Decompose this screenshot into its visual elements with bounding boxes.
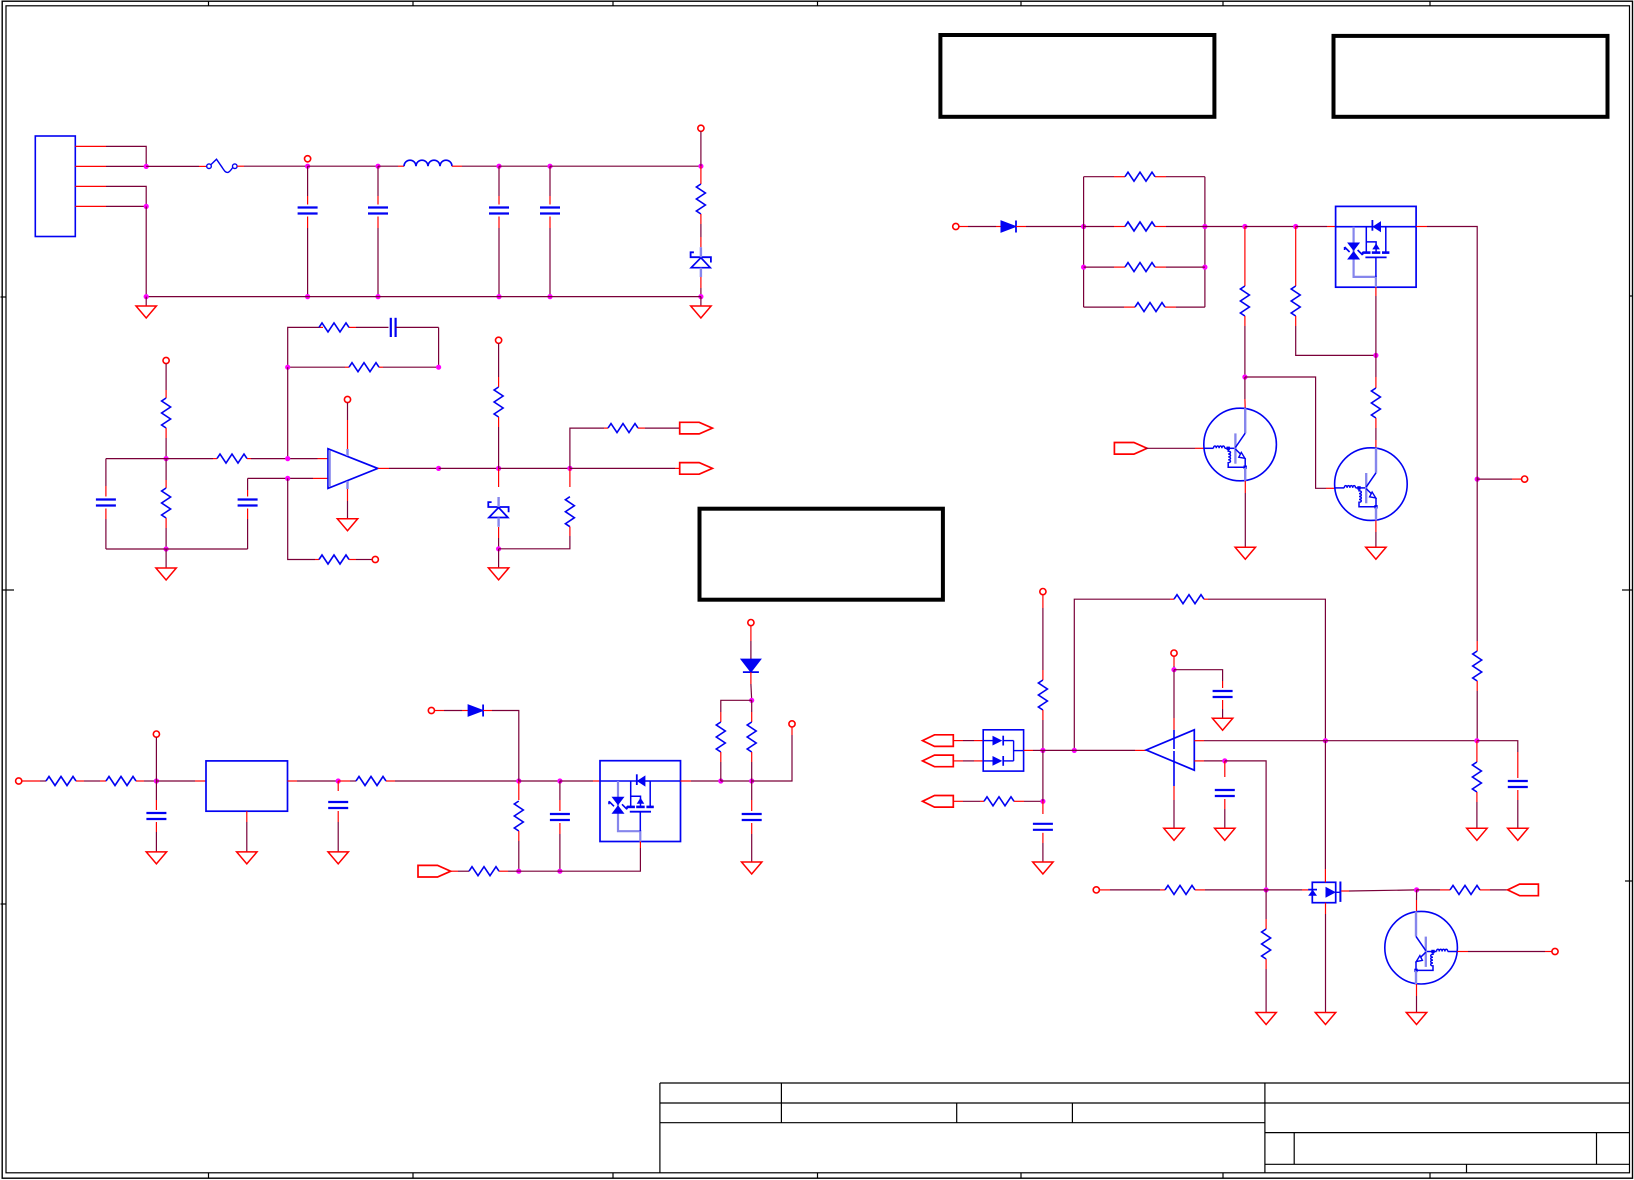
network wire row1 bbox=[1084, 176, 1205, 178]
wire R11 to R12 bbox=[76, 780, 106, 782]
U3 power pin bbox=[1173, 730, 1175, 749]
wire to ground bus bbox=[145, 206, 147, 296]
label box 3 bbox=[700, 509, 943, 600]
ground bbox=[1212, 718, 1232, 730]
resistor R26 bbox=[1371, 355, 1380, 448]
junction bbox=[749, 698, 754, 703]
junction bbox=[164, 456, 169, 461]
wire port to rail bbox=[700, 131, 702, 166]
fuse F1 bbox=[207, 159, 237, 172]
junction bbox=[285, 365, 290, 370]
wire to out port bbox=[752, 727, 792, 781]
capacitor C5 bbox=[391, 318, 396, 337]
junction bbox=[1323, 738, 1328, 743]
resistor R13 bbox=[356, 777, 386, 786]
wire power down bbox=[1173, 670, 1175, 730]
capacitor C7 bbox=[238, 478, 258, 549]
wire port to node bbox=[155, 737, 157, 781]
ground bbox=[1164, 828, 1184, 840]
junction bbox=[496, 466, 501, 471]
junction bbox=[749, 778, 754, 783]
transistor Q3 bbox=[1204, 408, 1277, 481]
wire R7 to port bbox=[349, 559, 372, 561]
ground bbox=[691, 297, 711, 318]
pin 4 stub bbox=[75, 205, 106, 207]
wire R30 to node bbox=[1014, 800, 1043, 802]
wire node to mosfet gate bbox=[1266, 889, 1312, 891]
pin 1 stub bbox=[75, 145, 106, 147]
junction bbox=[1264, 887, 1269, 892]
port bbox=[16, 778, 22, 784]
wire node link bbox=[1042, 750, 1044, 801]
resistor R10 bbox=[608, 424, 638, 433]
junction bbox=[1474, 738, 1479, 743]
resistor R15 bbox=[716, 712, 725, 781]
resistor R29 bbox=[1472, 741, 1481, 829]
wire to C12 bbox=[1174, 670, 1223, 681]
wire feedback mid bbox=[288, 366, 349, 368]
wire to mosfet box bbox=[1296, 226, 1336, 228]
diode D3 bbox=[468, 705, 483, 717]
wire regulator out bbox=[288, 780, 339, 782]
mosfet gate stub bbox=[1336, 891, 1340, 893]
junction bbox=[547, 164, 552, 169]
resistor R19 bbox=[1125, 222, 1155, 231]
ground bbox=[742, 862, 762, 874]
junction bbox=[436, 466, 441, 471]
diode D4 bbox=[741, 626, 761, 672]
port bbox=[428, 707, 434, 713]
wire input row bbox=[106, 458, 217, 460]
wire port1 bbox=[953, 740, 983, 742]
port bbox=[1040, 589, 1046, 595]
resistor R14 bbox=[514, 781, 523, 871]
mosfet Q5 bbox=[1308, 882, 1340, 903]
junction bbox=[285, 456, 290, 461]
resistor R21 bbox=[1135, 303, 1165, 312]
resistor R2 bbox=[319, 323, 349, 332]
port bbox=[1552, 948, 1558, 954]
wire R13 to node bbox=[386, 780, 519, 782]
capacitor C15 bbox=[1033, 801, 1053, 862]
resistor R25 bbox=[1291, 227, 1376, 356]
op-amp U3 bbox=[1146, 730, 1194, 770]
wire pin4 bbox=[106, 205, 146, 207]
junction bbox=[154, 778, 159, 783]
resistor R11 bbox=[46, 777, 76, 786]
port bbox=[680, 422, 713, 434]
junction bbox=[1475, 477, 1480, 482]
wire node to opamp out bbox=[1043, 749, 1146, 751]
wire to offset port bbox=[288, 478, 319, 559]
wire to Q4 base bbox=[1245, 377, 1335, 488]
wire node to mosfet box bbox=[560, 780, 600, 782]
inductor right stub bbox=[452, 165, 462, 167]
resistor R27 bbox=[1038, 680, 1047, 710]
resistor R6 bbox=[162, 459, 171, 549]
junction bbox=[698, 164, 703, 169]
ground bbox=[1215, 828, 1235, 840]
label box 2 bbox=[1334, 36, 1608, 117]
wire out row to port bbox=[570, 467, 680, 469]
pin 2 stub bbox=[75, 165, 106, 167]
wire D3 to node bbox=[483, 711, 519, 782]
resistor R28 bbox=[1174, 595, 1204, 604]
junction bbox=[516, 778, 521, 783]
wire fuse to node bbox=[244, 165, 308, 167]
wire port to D5 bbox=[959, 226, 1001, 228]
wire R17 to node bbox=[499, 870, 519, 872]
wire R4 to node bbox=[165, 428, 167, 459]
ground bbox=[488, 549, 508, 580]
resistor network right rail bbox=[1204, 177, 1206, 307]
Q3 emitter wire bbox=[1244, 481, 1246, 547]
junction bbox=[1373, 353, 1378, 358]
wire pin3 bbox=[106, 186, 146, 206]
junction bbox=[1202, 224, 1207, 229]
junction bbox=[496, 164, 501, 169]
port bbox=[748, 620, 754, 626]
resistor R3 bbox=[349, 363, 379, 372]
junction bbox=[1081, 265, 1086, 270]
capacitor bbox=[298, 166, 318, 296]
port bbox=[1114, 443, 1147, 455]
feedback wire top bbox=[1074, 599, 1174, 750]
wire feedback right bbox=[1204, 599, 1325, 741]
junction bbox=[164, 546, 169, 551]
op-amp power pin bbox=[344, 396, 350, 456]
port bbox=[953, 223, 959, 229]
junction bbox=[285, 476, 290, 481]
resistor R1 bbox=[696, 166, 705, 247]
wire IN+ row right bbox=[1325, 740, 1477, 742]
capacitor C8 bbox=[146, 781, 166, 852]
wire feedback top bbox=[288, 327, 323, 367]
wire noninverting row bbox=[248, 477, 328, 479]
regulator gnd pin bbox=[237, 811, 257, 864]
ground bbox=[1467, 828, 1487, 840]
network wire row4 bbox=[1084, 306, 1205, 308]
wire port to R4 bbox=[165, 364, 167, 398]
port bbox=[1508, 884, 1539, 896]
wire mosfet drain bbox=[1324, 741, 1326, 883]
capacitor C11 bbox=[742, 781, 762, 862]
junction bbox=[144, 294, 149, 299]
junction bbox=[557, 778, 562, 783]
wire rail to right stack bbox=[550, 165, 701, 167]
port bbox=[305, 156, 311, 162]
diode D5 bbox=[1001, 221, 1016, 233]
wire port to R27 bbox=[1042, 595, 1044, 680]
wire port2 bbox=[953, 760, 983, 762]
port bbox=[496, 337, 502, 343]
title block table bbox=[660, 1083, 1630, 1173]
wire R24 to Q3 bbox=[1244, 377, 1246, 408]
junction bbox=[375, 164, 380, 169]
wire to next node bbox=[721, 780, 752, 782]
junction bbox=[516, 869, 521, 874]
wire network to mosfet bbox=[1205, 226, 1245, 228]
Q4 emitter wire bbox=[1375, 520, 1377, 547]
connector J1 bbox=[35, 136, 75, 237]
capacitor C13 bbox=[1508, 752, 1528, 828]
op-amp U1 bbox=[328, 449, 378, 489]
frame zone ticks left and right bbox=[1, 296, 1634, 904]
wire mosfet source bbox=[1325, 903, 1327, 1013]
wire D4 to node bbox=[750, 672, 753, 700]
resistor R18 bbox=[1125, 172, 1155, 181]
wire to inductor bbox=[378, 165, 404, 167]
wire port to R8 bbox=[498, 343, 500, 387]
resistor network left rail bbox=[1083, 177, 1085, 307]
ground bbox=[328, 852, 348, 864]
junction bbox=[436, 365, 441, 370]
resistor R31 bbox=[1165, 885, 1195, 894]
wire R8 to out bbox=[498, 417, 500, 468]
junction bbox=[1293, 224, 1298, 229]
zener bottom stub bbox=[700, 277, 702, 297]
U3 gnd pin bbox=[1173, 751, 1175, 828]
junction bbox=[144, 164, 149, 169]
junction bbox=[567, 466, 572, 471]
junction bbox=[305, 164, 310, 169]
resistor R24 bbox=[1240, 227, 1249, 378]
wire C5 to corner bbox=[396, 327, 439, 367]
junction bbox=[547, 294, 552, 299]
ground bbox=[1235, 547, 1255, 559]
wire to R22 node bbox=[1245, 226, 1296, 228]
junction bbox=[496, 546, 501, 551]
mosfet Q1 bbox=[600, 761, 681, 842]
resistor R17 bbox=[469, 867, 499, 876]
frame zone ticks top and bottom bbox=[209, 1, 1431, 1178]
wire mosfet out bbox=[681, 780, 721, 782]
ground bbox=[146, 852, 166, 864]
junction bbox=[1081, 224, 1086, 229]
wire IN- to divider bbox=[1225, 761, 1266, 890]
resistor R4 bbox=[162, 398, 171, 428]
wire box to node bbox=[1024, 749, 1043, 751]
resistor R33 bbox=[1450, 885, 1480, 894]
bottom wire bbox=[106, 548, 248, 550]
wire mosfet to right rail bbox=[1416, 227, 1477, 470]
wire R33 to port bbox=[1480, 889, 1508, 891]
wire bottom row bbox=[519, 870, 560, 872]
port bbox=[698, 125, 704, 131]
mosfet source stub bbox=[1375, 287, 1377, 355]
capacitor bbox=[368, 166, 388, 296]
wire R12 to node bbox=[136, 780, 156, 782]
wire gate to node bbox=[1341, 890, 1416, 891]
port bbox=[1093, 887, 1099, 893]
wire to mosfet source bbox=[560, 842, 641, 872]
wire pin2 bbox=[106, 165, 146, 167]
wire R10 to port bbox=[638, 427, 680, 429]
ground bbox=[136, 297, 156, 318]
wire IN- row bbox=[1194, 760, 1225, 762]
port bbox=[372, 556, 378, 562]
junction bbox=[336, 778, 341, 783]
resistor R23 bbox=[1473, 651, 1482, 681]
wire to C13 bbox=[1477, 741, 1518, 752]
junction bbox=[1040, 748, 1045, 753]
wire IN+ row bbox=[1194, 740, 1325, 742]
pin 3 stub bbox=[75, 185, 106, 187]
port bbox=[789, 721, 795, 727]
capacitor C9 bbox=[328, 781, 348, 852]
ground bbox=[1315, 1013, 1335, 1025]
wire R3 right bbox=[379, 366, 439, 368]
wire port to D3 bbox=[435, 710, 469, 712]
resistor R8 bbox=[494, 387, 503, 417]
resistor R5 bbox=[217, 454, 247, 463]
junction bbox=[305, 294, 310, 299]
ground bbox=[156, 549, 176, 580]
wire to top port bbox=[570, 428, 608, 468]
fuse right stub bbox=[237, 165, 244, 167]
wire R27 to node bbox=[1042, 710, 1044, 750]
wire to port bbox=[1477, 478, 1521, 480]
capacitor bbox=[489, 166, 509, 296]
port bbox=[418, 865, 451, 877]
capacitor bbox=[540, 166, 560, 296]
wire output bbox=[378, 467, 439, 469]
wire port to R31 bbox=[1099, 889, 1165, 891]
Q6 base wire bbox=[1457, 951, 1552, 953]
wire port to Q3 base bbox=[1145, 447, 1203, 449]
wire R5 to opamp bbox=[247, 458, 328, 460]
ground bbox=[1508, 828, 1528, 840]
wire R31 to node bbox=[1195, 889, 1266, 891]
port bbox=[923, 796, 954, 808]
wire node to regulator bbox=[156, 780, 206, 782]
junction bbox=[496, 294, 501, 299]
op-amp gnd pin bbox=[337, 481, 357, 531]
wire parallel R top bbox=[721, 700, 752, 712]
resistor R32 bbox=[1262, 890, 1271, 1013]
diode box D6 bbox=[983, 730, 1023, 771]
mosfet Q2 bbox=[1336, 206, 1417, 287]
wire out to zener node bbox=[439, 467, 499, 469]
wire inverting input bbox=[287, 367, 289, 458]
resistor R20 bbox=[1125, 263, 1155, 272]
wire junction segment bbox=[1476, 469, 1478, 479]
wire port to R11 bbox=[22, 780, 46, 782]
Q6 emitter wire bbox=[1416, 984, 1418, 1013]
ground bbox=[1256, 1013, 1276, 1025]
capacitor C12 bbox=[1213, 681, 1233, 718]
voltage regulator U2 bbox=[206, 761, 288, 811]
wire C3 to C4 node bbox=[499, 165, 550, 167]
resistor R12 bbox=[106, 777, 136, 786]
inductor L1 bbox=[404, 160, 452, 166]
port bbox=[1522, 476, 1528, 482]
label box 1 bbox=[940, 35, 1214, 117]
wire node to Q6 bbox=[1416, 890, 1418, 912]
junction bbox=[144, 204, 149, 209]
wire node to C10 bbox=[519, 780, 560, 782]
ports to diode box bbox=[923, 735, 954, 767]
junction bbox=[1202, 265, 1207, 270]
junction bbox=[698, 294, 703, 299]
network wire row3 bbox=[1084, 266, 1205, 268]
capacitor C10 bbox=[550, 781, 570, 871]
transistor Q4 bbox=[1335, 448, 1408, 521]
wire port3 to R30 bbox=[953, 800, 984, 802]
wire node to C2 node bbox=[308, 165, 378, 167]
port bbox=[680, 463, 713, 475]
junction bbox=[1072, 748, 1077, 753]
zener diode D1 bbox=[691, 247, 711, 277]
wire pin1 bbox=[106, 146, 146, 166]
junction bbox=[557, 869, 562, 874]
transistor Q6 bbox=[1385, 911, 1458, 984]
ground bus wire bbox=[146, 296, 701, 298]
junction bbox=[1040, 799, 1045, 804]
wire port to R17 bbox=[449, 870, 469, 872]
resistor R9 bbox=[499, 468, 575, 548]
port bbox=[1171, 650, 1177, 656]
wire R2 to C5 bbox=[349, 326, 389, 328]
wire out to R9 node bbox=[499, 467, 570, 469]
junction bbox=[1222, 758, 1227, 763]
capacitor C14 bbox=[1215, 761, 1235, 828]
wire AC line to fuse bbox=[146, 165, 207, 167]
junction bbox=[1242, 374, 1247, 379]
junction bbox=[1171, 667, 1176, 672]
ground bbox=[1033, 862, 1053, 874]
wire node to R33 bbox=[1417, 889, 1450, 891]
network wire row2 bbox=[1084, 226, 1205, 228]
junction bbox=[718, 778, 723, 783]
junction bbox=[1242, 224, 1247, 229]
resistor R16 bbox=[747, 700, 756, 781]
zener diode D2 bbox=[488, 468, 508, 548]
junction bbox=[1414, 887, 1419, 892]
wire R23 down bbox=[1476, 681, 1478, 741]
port bbox=[163, 357, 169, 363]
wire D5 to network bbox=[1016, 226, 1084, 228]
capacitor C6 bbox=[96, 459, 116, 549]
ground bbox=[1366, 547, 1386, 559]
junction bbox=[375, 294, 380, 299]
ground bbox=[1406, 1013, 1426, 1025]
port bbox=[153, 731, 159, 737]
resistor R7 bbox=[319, 555, 349, 564]
resistor R30 bbox=[984, 797, 1014, 806]
wire power bbox=[1173, 656, 1175, 670]
wire rail down bbox=[1476, 479, 1478, 651]
wire out to R13 bbox=[338, 780, 356, 782]
wire inductor to C3 node bbox=[462, 165, 499, 167]
